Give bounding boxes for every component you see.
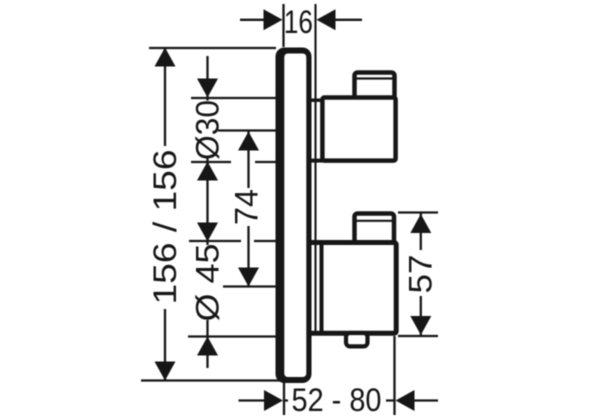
dimension 16 extension line right bbox=[314, 4, 316, 335]
dimension Ø30 extension lines bbox=[191, 98, 276, 162]
dimension 57 extension lines bbox=[398, 213, 438, 337]
dimension 52-80 extension line left bbox=[283, 382, 285, 415]
svg-text:57: 57 bbox=[403, 255, 439, 294]
svg-text:156 / 156: 156 / 156 bbox=[147, 150, 183, 305]
dimension Ø45 label bbox=[190, 244, 226, 322]
dimension Ø45 arrows bbox=[197, 223, 218, 356]
dimension 156/156 extension line top bbox=[149, 47, 276, 49]
dimension Ø30 arrows bbox=[197, 79, 218, 181]
dimension 52-80 label bbox=[288, 382, 386, 418]
dimension Ø30 label bbox=[190, 100, 226, 160]
svg-text:74: 74 bbox=[229, 189, 265, 225]
dimension 74 extension lines bbox=[218, 131, 276, 287]
dimension 16 extension line left bbox=[282, 4, 284, 47]
dimension 52-80 line and arrows bbox=[239, 390, 439, 411]
dimension 16 leader and arrows bbox=[240, 9, 362, 30]
svg-text:52 - 80: 52 - 80 bbox=[292, 382, 382, 418]
dimension Ø45 extension lines bbox=[188, 241, 276, 337]
dimension chain line (diameters) bbox=[206, 56, 208, 368]
lower handle cap bbox=[355, 214, 395, 245]
svg-text:Ø 45: Ø 45 bbox=[190, 244, 226, 322]
lower handle knob bbox=[309, 243, 396, 334]
dimension 74 line and arrows bbox=[238, 132, 259, 287]
dimension 74 label bbox=[229, 188, 265, 226]
upper handle sleeve bbox=[308, 100, 324, 160]
upper handle knob bbox=[322, 98, 395, 161]
dimension 57 label bbox=[403, 250, 439, 296]
dimension 156/156 extension line bottom bbox=[141, 379, 280, 381]
dimension 52-80 extension line right bbox=[393, 336, 395, 415]
dimension 57 line and arrows bbox=[410, 214, 431, 336]
upper handle cap bbox=[355, 73, 395, 100]
dimension 156/156 line and arrows bbox=[155, 48, 176, 381]
svg-text:16: 16 bbox=[284, 4, 313, 40]
lower handle tab bbox=[346, 333, 368, 346]
escutcheon plate bbox=[276, 48, 312, 384]
lower handle seam bbox=[320, 245, 324, 332]
